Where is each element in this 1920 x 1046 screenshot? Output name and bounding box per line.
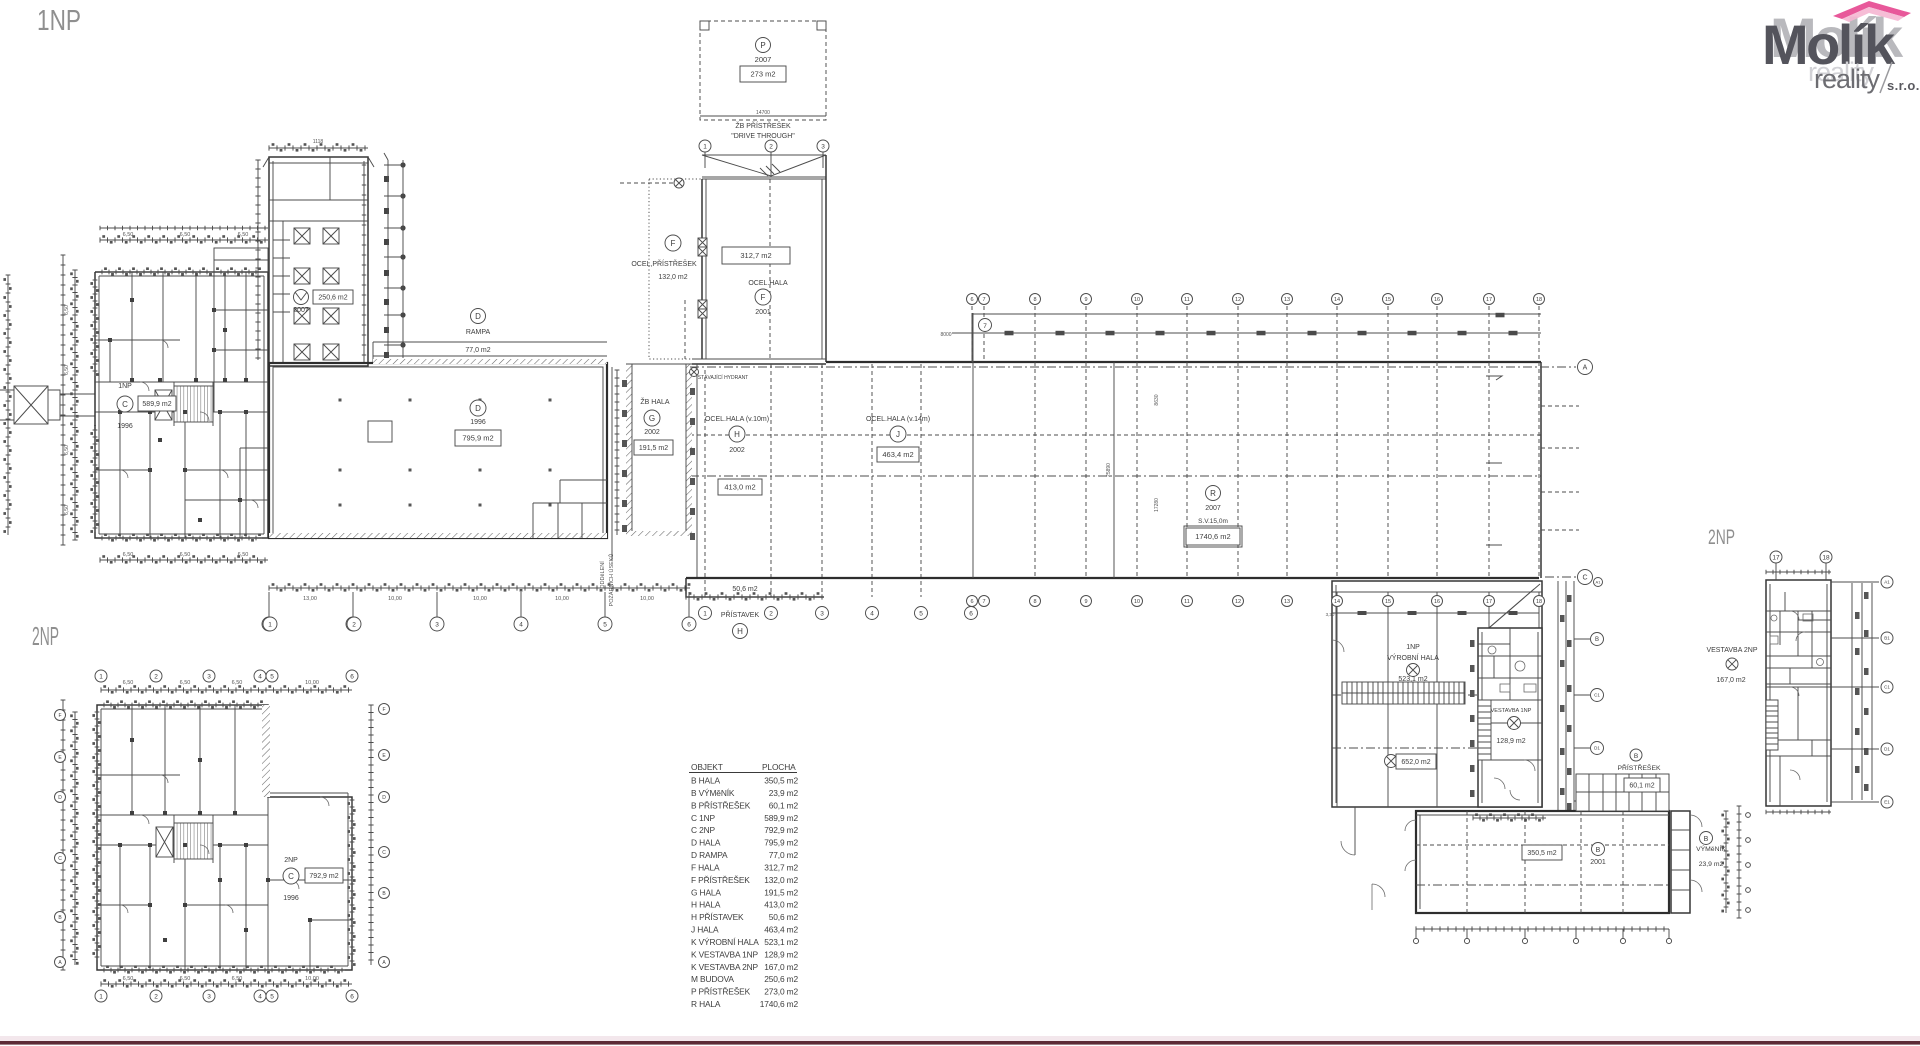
svg-text:H HALA: H HALA (691, 900, 721, 910)
svg-text:14700: 14700 (756, 110, 770, 116)
building M outline (269, 157, 368, 366)
8000 smudge row K (1332, 612, 1539, 614)
svg-text:OCEL.HALA (v.10m): OCEL.HALA (v.10m) (705, 416, 769, 423)
svg-text:589,9 m2: 589,9 m2 (764, 813, 798, 823)
svg-text:12: 12 (1235, 297, 1241, 303)
svg-text:128,9 m2: 128,9 m2 (1496, 738, 1525, 745)
svg-text:F HALA: F HALA (691, 862, 720, 872)
svg-text:H: H (734, 430, 740, 439)
dimension above drive-through (700, 115, 826, 117)
vestavba 1NP K (1478, 628, 1542, 807)
column grid circles top row (967, 294, 978, 305)
svg-text:1: 1 (268, 621, 272, 628)
hala B outline (1416, 811, 1669, 913)
svg-text:60,1 m2: 60,1 m2 (769, 800, 799, 810)
svg-text:10,00: 10,00 (388, 596, 402, 602)
bottom dimension chain below C (100, 559, 268, 561)
svg-text:A1: A1 (1884, 580, 1890, 585)
stair vestavba 2NP (1766, 700, 1778, 750)
upper annex of C (214, 248, 268, 272)
svg-text:2NP: 2NP (32, 621, 59, 651)
svg-text:2: 2 (769, 610, 773, 617)
marker circle X (674, 178, 684, 188)
svg-text:F PŘÍSTŘEŠEK: F PŘÍSTŘEŠEK (691, 875, 750, 885)
svg-text:B PŘÍSTŘEŠEK: B PŘÍSTŘEŠEK (691, 800, 751, 810)
label R (1206, 486, 1221, 501)
svg-text:J HALA: J HALA (691, 925, 719, 935)
grid circles top C 2NP (95, 670, 107, 682)
svg-text:4: 4 (870, 610, 874, 617)
svg-text:2: 2 (154, 993, 158, 1000)
right strip vestavba 2NP (1852, 583, 1872, 800)
svg-text:A: A (1583, 365, 1588, 372)
svg-text:2001: 2001 (1590, 859, 1606, 866)
svg-text:H: H (737, 627, 743, 636)
top dim chain C 2NP (101, 689, 352, 691)
rampa D (373, 342, 607, 363)
svg-text:6,50: 6,50 (180, 680, 191, 686)
svg-text:167,0 m2: 167,0 m2 (764, 962, 798, 972)
svg-text:1: 1 (99, 993, 103, 1000)
bottom right rooms of D (533, 480, 607, 538)
svg-text:B: B (1595, 637, 1599, 643)
door arcs C 2NP (140, 815, 149, 824)
far left tick strip (7, 275, 9, 535)
svg-text:B: B (1634, 753, 1638, 760)
R boundary verticals (973, 313, 1114, 578)
svg-text:STÁVAJÍCÍ HYDRANT: STÁVAJÍCÍ HYDRANT (698, 374, 748, 381)
building C 2NP outline (97, 705, 352, 970)
svg-text:18: 18 (1822, 554, 1830, 561)
bottom grid circles row 6-13 (967, 596, 978, 607)
svg-text:463,4 m2: 463,4 m2 (764, 925, 798, 935)
svg-text:10,00: 10,00 (555, 596, 569, 602)
door jamb marks C 1NP (130, 378, 134, 382)
svg-text:ODDěLENÍ: ODDěLENÍ (599, 561, 606, 589)
svg-text:13: 13 (1284, 599, 1290, 605)
svg-text:14: 14 (1334, 297, 1340, 303)
vertical column lines inside R (1034, 362, 1036, 578)
svg-text:6,50: 6,50 (232, 976, 243, 982)
G wall column marks (622, 380, 627, 387)
stavajici hydrant (690, 368, 699, 377)
svg-text:B HALA: B HALA (691, 776, 720, 786)
svg-text:13: 13 (1284, 297, 1290, 303)
svg-text:9: 9 (1084, 297, 1087, 303)
svg-text:15: 15 (1385, 599, 1391, 605)
svg-text:PŘÍSTAVEK: PŘÍSTAVEK (721, 610, 760, 619)
svg-text:312,7 m2: 312,7 m2 (740, 251, 771, 260)
svg-text:2: 2 (352, 621, 356, 628)
svg-text:2002: 2002 (644, 429, 660, 436)
svg-text:250,6 m2: 250,6 m2 (764, 974, 798, 984)
svg-text:6: 6 (687, 621, 691, 628)
svg-text:10,00: 10,00 (640, 596, 654, 602)
svg-text:6,50: 6,50 (123, 976, 134, 982)
svg-text:K VÝROBNÍ HALA: K VÝROBNÍ HALA (691, 937, 759, 947)
svg-text:15: 15 (1385, 297, 1391, 303)
logo Molik reality s.r.o. (1762, 1, 1920, 94)
svg-text:G HALA: G HALA (691, 887, 721, 897)
svg-text:D1: D1 (1594, 746, 1600, 751)
svg-text:6: 6 (350, 993, 354, 1000)
svg-text:14: 14 (1334, 599, 1340, 605)
svg-text:2007: 2007 (1205, 505, 1221, 512)
svg-text:6,50: 6,50 (64, 505, 70, 515)
building P pristresek drive-through (700, 21, 826, 120)
svg-text:C: C (1582, 575, 1587, 582)
building C 1NP outline (95, 272, 268, 538)
svg-text:463,4 m2: 463,4 m2 (882, 450, 913, 459)
hala R right wall (1540, 362, 1542, 578)
left dimension chain C 1NP (74, 270, 76, 540)
diagonal braces top right K (1483, 584, 1540, 633)
svg-text:795,9 m2: 795,9 m2 (462, 434, 493, 443)
svg-text:B1: B1 (1884, 636, 1890, 641)
survey dots column right of M (400, 162, 405, 167)
svg-text:250,6 m2: 250,6 m2 (318, 295, 347, 302)
svg-text:F: F (671, 239, 676, 248)
svg-text:D: D (475, 312, 481, 321)
bottom comb vestavba 2NP (1766, 811, 1831, 813)
svg-text:1: 1 (99, 673, 103, 680)
svg-text:6,50: 6,50 (64, 365, 70, 375)
svg-text:167,0 m2: 167,0 m2 (1716, 677, 1745, 684)
svg-text:17: 17 (1486, 599, 1492, 605)
dim row below D (269, 587, 690, 589)
svg-text:P PŘÍSTŘEŠEK: P PŘÍSTŘEŠEK (691, 987, 751, 997)
svg-text:350,5 m2: 350,5 m2 (1527, 850, 1556, 857)
hala J (872, 364, 921, 597)
svg-text:1: 1 (703, 610, 707, 617)
svg-text:10: 10 (1134, 599, 1140, 605)
svg-text:6,50: 6,50 (180, 552, 191, 558)
left dim chain C 2NP (74, 712, 76, 965)
svg-text:1NP: 1NP (37, 5, 81, 37)
svg-text:60,1 m2: 60,1 m2 (1629, 783, 1654, 790)
svg-text:P: P (760, 41, 765, 50)
svg-text:R: R (1210, 489, 1216, 498)
top dimension chain above C (100, 239, 268, 241)
svg-text:2001: 2001 (755, 309, 771, 316)
oddeleni pozarnich useku wall (611, 367, 613, 560)
vymenik B (1671, 811, 1690, 913)
svg-text:128,9 m2: 128,9 m2 (764, 949, 798, 959)
svg-text:10,00: 10,00 (473, 596, 487, 602)
right dim combs of B (1725, 811, 1727, 913)
svg-text:VÝROBNÍ HALA: VÝROBNÍ HALA (1387, 653, 1439, 662)
svg-text:10,00: 10,00 (305, 976, 319, 982)
svg-text:4: 4 (258, 673, 262, 680)
svg-text:C1: C1 (1884, 685, 1890, 690)
svg-text:3: 3 (820, 610, 824, 617)
svg-text:M BUDOVA: M BUDOVA (691, 974, 734, 984)
svg-text:1996: 1996 (470, 419, 486, 426)
interior walls C 2NP (97, 705, 352, 970)
parapet top detail (263, 157, 374, 200)
svg-text:191,5 m2: 191,5 m2 (639, 445, 668, 452)
hala R bottom wall (686, 577, 1539, 579)
svg-text:50,6 m2: 50,6 m2 (732, 586, 757, 593)
svg-text:4: 4 (258, 993, 262, 1000)
svg-text:6: 6 (970, 599, 973, 605)
svg-text:C1: C1 (1594, 693, 1600, 698)
svg-text:1996: 1996 (117, 423, 133, 430)
door arcs C (140, 382, 149, 391)
svg-text:12: 12 (1235, 599, 1241, 605)
svg-text:C: C (122, 400, 128, 409)
door arcs (1790, 611, 1805, 780)
svg-text:4: 4 (519, 621, 523, 628)
svg-text:1118: 1118 (313, 139, 324, 145)
svg-text:1740,6 m2: 1740,6 m2 (1195, 532, 1230, 541)
interior walls C 1NP (95, 272, 268, 538)
door arcs vestavba (1494, 760, 1535, 800)
svg-text:D: D (382, 795, 386, 801)
svg-text:5: 5 (270, 673, 274, 680)
interior dashed horizontals R (690, 434, 1541, 436)
area table OBJEKT/PLOCHA (691, 762, 798, 1009)
svg-text:5: 5 (603, 621, 607, 628)
svg-text:6,50: 6,50 (238, 232, 249, 238)
right dim chain C 2NP (370, 705, 372, 965)
svg-text:OCEL,PŘÍSTŘEŠEK: OCEL,PŘÍSTŘEŠEK (631, 259, 697, 268)
svg-text:K VESTAVBA 1NP: K VESTAVBA 1NP (691, 949, 759, 959)
svg-text:B: B (1704, 836, 1709, 843)
svg-text:6: 6 (970, 297, 973, 303)
svg-text:523,1 m2: 523,1 m2 (764, 937, 798, 947)
svg-text:8000: 8000 (940, 332, 951, 338)
svg-text:11: 11 (1184, 599, 1190, 605)
svg-text:E1: E1 (1884, 800, 1890, 805)
svg-text:A1: A1 (1596, 579, 1602, 584)
svg-text:1740,6 m2: 1740,6 m2 (760, 999, 799, 1009)
svg-text:2007: 2007 (755, 55, 772, 64)
svg-text:7: 7 (982, 599, 985, 605)
svg-text:2: 2 (769, 143, 773, 150)
svg-text:273 m2: 273 m2 (750, 70, 775, 79)
svg-text:D RAMPA: D RAMPA (691, 850, 728, 860)
svg-text:C 1NP: C 1NP (691, 813, 715, 823)
svg-text:3,30: 3,30 (1326, 612, 1335, 617)
svg-text:2NP: 2NP (284, 857, 298, 864)
svg-text:ŽB HALA: ŽB HALA (640, 397, 670, 406)
dimension chain left of M (257, 160, 259, 360)
svg-text:ŽB PŘÍSTŘEŠEK: ŽB PŘÍSTŘEŠEK (735, 121, 791, 130)
window combs on C walls (94, 280, 96, 376)
svg-text:8630: 8630 (1154, 394, 1160, 405)
K right dimension strip (1558, 581, 1574, 810)
svg-text:589,9 m2: 589,9 m2 (142, 401, 171, 408)
svg-text:413,0 m2: 413,0 m2 (764, 900, 798, 910)
hatched strip right of top block (262, 705, 270, 797)
stair core C 1NP (174, 386, 213, 422)
vestavba 2NP plan (1766, 580, 1831, 806)
svg-text:D HALA: D HALA (691, 838, 721, 848)
svg-text:1NP: 1NP (118, 383, 132, 390)
svg-text:273,0 m2: 273,0 m2 (764, 987, 798, 997)
svg-text:77,0 m2: 77,0 m2 (769, 850, 799, 860)
svg-text:792,9 m2: 792,9 m2 (309, 873, 338, 880)
interior col dots D (339, 399, 342, 402)
svg-text:PŘÍSTŘEŠEK: PŘÍSTŘEŠEK (1617, 763, 1661, 772)
svg-text:18: 18 (1536, 599, 1542, 605)
svg-text:3: 3 (821, 143, 825, 150)
svg-text:6,50: 6,50 (64, 305, 70, 315)
wc fixtures (1488, 646, 1496, 654)
wall stub below K left (1354, 807, 1356, 855)
svg-text:2NP: 2NP (1708, 526, 1735, 549)
dim comb below vestavba (1473, 817, 1546, 819)
svg-text:5: 5 (270, 993, 274, 1000)
svg-text:6,50: 6,50 (123, 232, 134, 238)
svg-text:2: 2 (154, 673, 158, 680)
hala H (692, 363, 826, 365)
svg-text:16: 16 (1434, 599, 1440, 605)
svg-text:7: 7 (983, 323, 987, 330)
svg-text:H PŘÍSTAVEK: H PŘÍSTAVEK (691, 912, 744, 922)
svg-text:3: 3 (435, 621, 439, 628)
B interior lines (1416, 844, 1669, 846)
label D (470, 400, 486, 416)
svg-text:77,0 m2: 77,0 m2 (465, 347, 490, 354)
svg-text:413,0 m2: 413,0 m2 (724, 483, 755, 492)
svg-text:6: 6 (969, 610, 973, 617)
grid circles 1 2 3 (699, 140, 711, 152)
hala R top wall (826, 361, 1541, 363)
svg-text:reality: reality (1814, 64, 1881, 94)
svg-text:K VESTAVBA 2NP: K VESTAVBA 2NP (691, 962, 759, 972)
svg-text:C: C (58, 856, 62, 862)
svg-text:D: D (475, 404, 481, 413)
svg-text:17: 17 (1486, 297, 1492, 303)
svg-text:B: B (1596, 847, 1601, 854)
svg-text:1996: 1996 (283, 895, 299, 902)
svg-text:523,1 m2: 523,1 m2 (1398, 676, 1427, 683)
svg-text:OCEL.HALA (v.14m): OCEL.HALA (v.14m) (866, 416, 930, 423)
hala F (701, 179, 703, 359)
door arcs left of B (1405, 820, 1416, 871)
svg-text:1: 1 (703, 143, 707, 150)
small marks left of vestavba (1470, 640, 1475, 647)
svg-text:3: 3 (207, 993, 211, 1000)
building K vyrobni hala outline (1332, 581, 1542, 807)
svg-text:R HALA: R HALA (691, 999, 721, 1009)
svg-text:10: 10 (1134, 297, 1140, 303)
label M (294, 290, 309, 305)
top grid circles 17 18 (1770, 551, 1782, 563)
svg-text:11: 11 (1184, 297, 1190, 303)
svg-text:10,00: 10,00 (305, 680, 319, 686)
svg-text:VESTAVBA 1NP: VESTAVBA 1NP (1491, 708, 1532, 714)
svg-text:"DRIVE THROUGH": "DRIVE THROUGH" (731, 133, 795, 140)
svg-text:8: 8 (1033, 599, 1036, 605)
svg-text:F: F (58, 713, 61, 719)
svg-text:132,0 m2: 132,0 m2 (764, 875, 798, 885)
svg-text:795,9 m2: 795,9 m2 (764, 838, 798, 848)
svg-text:3: 3 (207, 673, 211, 680)
grid circles 1-6 H row (699, 607, 712, 620)
right wall stub dashes (1541, 406, 1579, 530)
bottom dim comb B (1416, 928, 1669, 930)
svg-text:S.V.15,0m: S.V.15,0m (1198, 518, 1228, 525)
hatched top wall strip (373, 359, 607, 364)
stair core C 2NP (174, 823, 213, 859)
column X marks on F wall (698, 238, 707, 318)
dimension chain above M (269, 147, 368, 149)
svg-text:792,9 m2: 792,9 m2 (764, 825, 798, 835)
X column boxes (294, 228, 339, 360)
svg-text:OBJEKT: OBJEKT (691, 762, 723, 772)
door jamb marks C 2NP (130, 811, 134, 815)
svg-text:17280: 17280 (1154, 498, 1160, 512)
stair ladder vestavba (1478, 700, 1491, 760)
svg-text:23,9 m2: 23,9 m2 (769, 788, 799, 798)
svg-text:350,5 m2: 350,5 m2 (764, 776, 798, 786)
hala D outline (269, 363, 607, 538)
pink roof (1833, 1, 1911, 19)
svg-text:132,0 m2: 132,0 m2 (658, 274, 687, 281)
svg-text:G: G (649, 414, 655, 423)
K column verticals (1336, 592, 1338, 807)
truss braces (702, 155, 826, 179)
svg-text:8: 8 (1033, 297, 1036, 303)
svg-text:C 2NP: C 2NP (691, 825, 715, 835)
svg-text:J: J (896, 430, 900, 439)
svg-text:6,50: 6,50 (123, 552, 134, 558)
svg-text:VESTAVBA 2NP: VESTAVBA 2NP (1706, 647, 1757, 654)
svg-text:F: F (761, 293, 766, 302)
door arc K left (1332, 640, 1344, 652)
svg-text:25890: 25890 (1106, 463, 1112, 477)
grid circles 1-6 below D (262, 617, 276, 631)
K right axis circles (1574, 639, 1590, 801)
svg-text:D1: D1 (1884, 747, 1890, 752)
svg-text:6: 6 (350, 673, 354, 680)
svg-text:6,50: 6,50 (64, 445, 70, 455)
svg-text:191,5 m2: 191,5 m2 (764, 887, 798, 897)
svg-text:18: 18 (1536, 297, 1542, 303)
grid circles 1 2 above C 2NP (263, 617, 277, 631)
bottom dim chain C 2NP (101, 983, 352, 985)
axis C (1545, 576, 1576, 578)
svg-text:13,00: 13,00 (303, 596, 317, 602)
K interior dash-dot (1332, 695, 1542, 748)
svg-text:312,7 m2: 312,7 m2 (764, 862, 798, 872)
left small rooms of M (273, 221, 290, 362)
svg-text:1NP: 1NP (1406, 644, 1420, 651)
pristavek H (686, 578, 824, 597)
svg-text:B VÝMěNÍK: B VÝMěNÍK (691, 788, 735, 798)
svg-text:C: C (382, 850, 386, 856)
svg-text:50,6 m2: 50,6 m2 (769, 912, 799, 922)
svg-text:PLOCHA: PLOCHA (762, 762, 796, 772)
svg-text:6,50: 6,50 (232, 680, 243, 686)
svg-text:C: C (288, 872, 294, 881)
svg-text:652,0 m2: 652,0 m2 (1401, 759, 1430, 766)
svg-text:7: 7 (982, 297, 985, 303)
window combs C 2NP (104, 704, 262, 706)
svg-text:F: F (382, 707, 385, 713)
top boundary line above R (972, 314, 1541, 362)
svg-text:RAMPA: RAMPA (466, 329, 491, 336)
svg-text:OCEL.HALA: OCEL.HALA (748, 280, 788, 287)
svg-text:23,9 m2: 23,9 m2 (1699, 861, 1724, 868)
grid circles 14-18 inside K top (1332, 596, 1343, 607)
footer maroon rule (0, 1036, 1920, 1042)
svg-text:s.r.o.: s.r.o. (1887, 78, 1920, 93)
svg-text:2007: 2007 (293, 307, 309, 314)
